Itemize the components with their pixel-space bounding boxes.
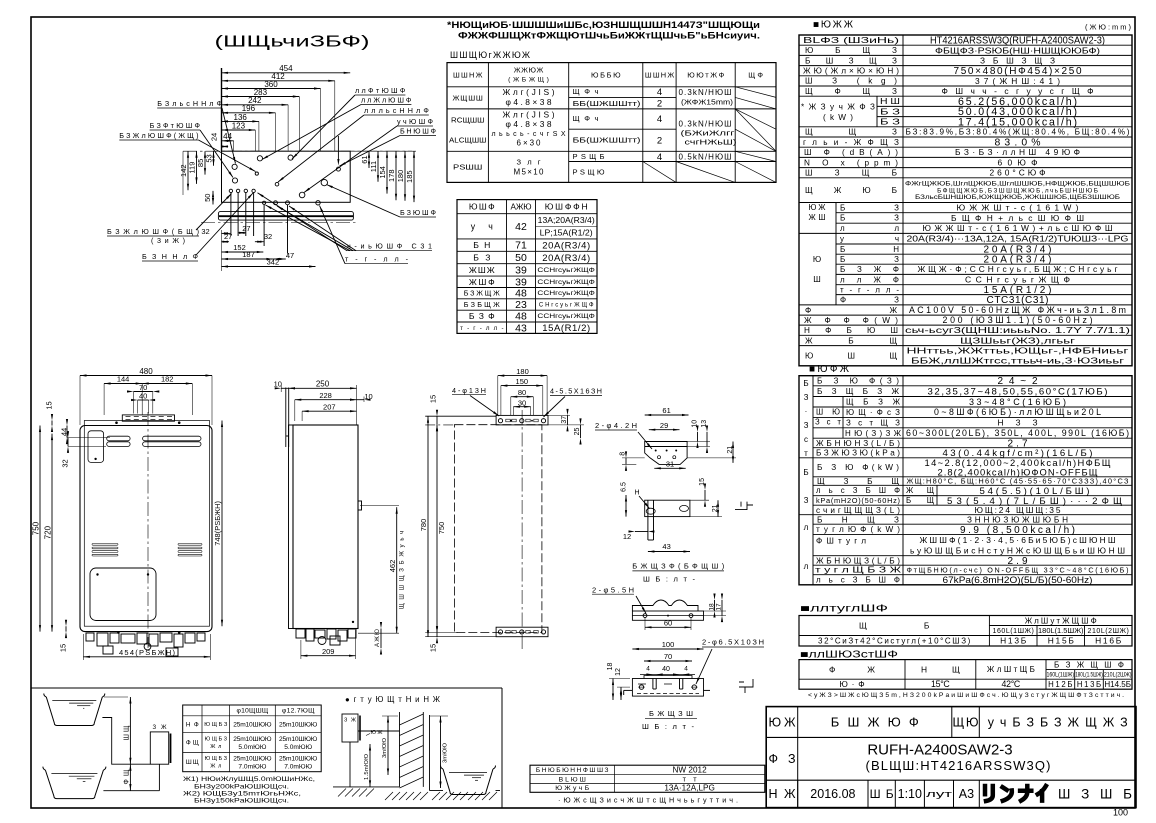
svg-text:ФЩ: ФЩ — [186, 740, 199, 747]
svg-text:Н14.5Б: Н14.5Б — [1104, 680, 1131, 689]
svg-text:т: т — [804, 449, 808, 458]
svg-text:15A(R1/2): 15A(R1/2) — [542, 323, 590, 334]
third angle symbol 2 — [739, 679, 753, 693]
svg-text:Ж Щ: Ж Щ — [906, 486, 934, 495]
torii pipes — [350, 731, 400, 787]
side view wall plate — [289, 425, 294, 629]
svg-text:ФЖЖФШЩЖтФЖЩЮтШчьБиЖЖтЩШчьБ"ьБН: ФЖЖФШЩЖтФЖЩЮтШчьБиЖЖтЩШчьБ"ьБНсиуич. — [458, 31, 760, 41]
svg-text:с: с — [804, 435, 808, 444]
svg-text:33~48°C(16ЮБ): 33~48°C(16ЮБ) — [969, 397, 1066, 407]
empty cell diagonals — [735, 87, 776, 98]
svg-text:Н: Н — [634, 489, 639, 496]
bracket detail 1 (2-phi4.2) — [645, 414, 689, 416]
top louvers — [107, 436, 130, 441]
bottom band box — [31, 687, 502, 689]
svg-text:ШШНЖ: ШШНЖ — [645, 70, 674, 79]
svg-text:БНЗу150kPaЮШЮЩсч.: БНЗу150kPaЮШЮЩсч. — [194, 798, 289, 805]
svg-text:ЮЩБЗ: ЮЩБЗ — [205, 756, 228, 762]
svg-text:ЮЖ: ЮЖ — [809, 203, 827, 212]
svg-text:НЮ(З)ЗЖ: НЮ(З)ЗЖ — [845, 429, 902, 438]
svg-text:32,35,37~48,50,55,60°C(17ЮБ): 32,35,37~48,50,55,60°C(17ЮБ) — [928, 387, 1108, 398]
mid louvers — [92, 544, 118, 546]
svg-text:лут: лут — [926, 789, 953, 800]
svg-text:4-φ13Н: 4-φ13Н — [452, 386, 486, 395]
svg-text:48: 48 — [515, 288, 527, 300]
svg-text:ЮББЮ: ЮББЮ — [591, 70, 621, 79]
svg-text:48: 48 — [515, 311, 527, 323]
svg-text:PSЩБ: PSЩБ — [573, 152, 605, 161]
certification table — [530, 765, 765, 792]
svg-text:53: 53 — [205, 154, 214, 162]
svg-text:учЮШФ: учЮШФ — [397, 117, 434, 126]
svg-text:(ЖФЖ15mm): (ЖФЖ15mm) — [681, 97, 734, 106]
svg-text:·: · — [805, 407, 808, 416]
svg-text:342: 342 — [267, 258, 280, 267]
svg-text:ЮШФФН: ЮШФФН — [545, 202, 588, 212]
svg-text:ЩЮ: ЩЮ — [953, 715, 979, 729]
svg-text:15°C: 15°C — [931, 679, 950, 689]
svg-text:ББ(ШЖШШтт): ББ(ШЖШШтт) — [573, 136, 641, 145]
svg-text:CCHгсуьгЖЩФ: CCHгсуьгЖЩФ — [537, 291, 595, 297]
svg-text:39: 39 — [515, 265, 527, 277]
462 dim — [396, 507, 398, 633]
svg-text:Н15Б: Н15Б — [1048, 636, 1075, 646]
svg-text:32: 32 — [264, 232, 272, 241]
svg-text:Б З: Б З — [880, 107, 900, 116]
bottom bracket bar — [496, 627, 548, 637]
svg-text:Ш: Ш — [813, 275, 821, 284]
svg-text:PSЩЮ: PSЩЮ — [573, 167, 605, 176]
svg-text:БНЮШФ: БНЮШФ — [400, 127, 437, 136]
svg-text:42: 42 — [515, 221, 527, 233]
svg-text:ШШНЖ: ШШНЖ — [453, 70, 483, 79]
spec table — [799, 35, 1132, 366]
svg-text:25m10ШЮЮ: 25m10ШЮЮ — [233, 756, 272, 763]
svg-text:ЩФч: ЩФч — [573, 114, 599, 123]
svg-text:20A(R3/4)···13A,12A, 15A(R1/2): 20A(R3/4)···13A,12A, 15A(R1/2)TUЮШЗ···LP… — [907, 234, 1129, 244]
svg-text:BLФЗ (ШЗиНь): BLФЗ (ШЗиНь) — [803, 36, 899, 45]
svg-text:φ10ЩШЩ: φ10ЩШЩ — [237, 708, 269, 715]
svg-text:ББ(ШЖШШтт): ББ(ШЖШШтт) — [573, 99, 641, 108]
front view PS hole rect — [84, 421, 209, 627]
svg-text:ЖШЖ: ЖШЖ — [469, 265, 495, 275]
torii kiki box — [342, 714, 358, 742]
svg-text:счгНЖьШ): счгНЖьШ) — [685, 137, 737, 146]
top bracket bar — [496, 415, 548, 425]
svg-text:AC100V 50-60HzЩЖ ФЖч-иьЗл1.8m: AC100V 50-60HzЩЖ ФЖч-иьЗл1.8m — [909, 305, 1126, 315]
exhaust vent — [122, 415, 174, 421]
svg-text:4-5.5X16ЗН: 4-5.5X16ЗН — [550, 387, 602, 396]
svg-text:7.0mЮЮ: 7.0mЮЮ — [284, 763, 312, 770]
front view body — [80, 426, 212, 632]
svg-text:2-φ5.5Н: 2-φ5.5Н — [592, 585, 634, 594]
svg-text:LP;15A(R1/2): LP;15A(R1/2) — [540, 229, 593, 238]
svg-text:З: З — [804, 393, 809, 402]
svg-text:AЖЮ: AЖЮ — [511, 202, 532, 211]
svg-text:70: 70 — [664, 652, 672, 661]
svg-text:748(PSБЖН): 748(PSБЖН) — [213, 501, 222, 546]
svg-text:100: 100 — [662, 640, 675, 649]
svg-text:БЗльсБШНШЮБ,ЮЖЩЖЮБ,ЖЖШШЮБ,ЩББЗ: БЗльсБШНШЮБ,ЮЖЩЖЮБ,ЖЖШШЮБ,ЩББЗШШЮБ — [915, 194, 1120, 201]
fixing table — [447, 63, 776, 183]
svg-text:67kPa(6.8mH2O)(5L/Б)(50-60Hz): 67kPa(6.8mH2O)(5L/Б)(50-60Hz) — [943, 575, 1093, 586]
svg-text:Н Щ: Н Щ — [921, 664, 960, 674]
svg-text:31: 31 — [666, 460, 674, 469]
svg-text:47: 47 — [286, 251, 294, 260]
A dim — [380, 629, 382, 649]
svg-text:15: 15 — [429, 644, 438, 652]
svg-text:З: З — [804, 496, 809, 505]
svg-text:27: 27 — [242, 224, 250, 233]
front door panel — [90, 568, 156, 621]
svg-text:БЖЩЗФ(БФЩШ): БЖЩЗФ(БФЩШ) — [632, 562, 725, 571]
svg-text:φ12.7ЮЩ: φ12.7ЮЩ — [282, 708, 315, 715]
svg-text:■ллШЮЗстШФ: ■ллШЮЗстШФ — [800, 650, 899, 661]
svg-text:180: 180 — [396, 170, 405, 183]
svg-text:сьч-ьсуг3(ЩНШ:иьььNo. 1.7Y 7.7: сьч-ьсуг3(ЩНШ:иьььNo. 1.7Y 7.7/1.1) — [905, 326, 1130, 335]
svg-text:2016.08: 2016.08 — [810, 787, 855, 801]
svg-text:185: 185 — [405, 170, 414, 183]
svg-text:5.0mЮЮ: 5.0mЮЮ — [284, 744, 312, 751]
bracket detail 4 (upper fitting) — [632, 648, 703, 650]
svg-text:210L(2ШЖ): 210L(2ШЖ) — [1088, 628, 1129, 635]
svg-text:720: 720 — [43, 525, 52, 539]
svg-text:50: 50 — [515, 252, 527, 264]
svg-text:БЗЖЩЖ: БЗЖЩЖ — [464, 289, 500, 298]
svg-text:ЮШФ: ЮШФ — [469, 202, 495, 212]
svg-text:Ж2) ЮЩБЗу15mтЮгьНЖс,: Ж2) ЮЩБЗу15mтЮгьНЖс, — [183, 791, 301, 798]
svg-text:32: 32 — [201, 227, 209, 236]
svg-text:ЮЖучБ: ЮЖучБ — [555, 785, 590, 792]
svg-text:210L(2ШЖ): 210L(2ШЖ) — [1104, 672, 1132, 679]
connection ports — [232, 164, 237, 169]
svg-text:60: 60 — [664, 619, 672, 628]
svg-text:160L(1ШЖ): 160L(1ШЖ) — [993, 628, 1034, 635]
svg-text:*НЮЩиЮБ·ШШШШиШБс,ЮЗНШЩШШН1447З: *НЮЩиЮБ·ШШШШиШБс,ЮЗНШЩШШН1447З"ШЩЮЩи — [447, 20, 760, 30]
torii dims — [369, 744, 371, 787]
front view top dims — [80, 375, 212, 377]
svg-text:25m10ШЮЮ: 25m10ШЮЮ — [279, 756, 318, 763]
small access panel — [88, 431, 104, 463]
svg-text:NW 2012: NW 2012 — [673, 766, 708, 775]
svg-text:50: 50 — [203, 194, 212, 202]
svg-text:2: 2 — [657, 135, 662, 146]
pipe length table — [183, 705, 322, 772]
svg-text:ШЩ: ШЩ — [186, 759, 199, 766]
svg-text:18: 18 — [607, 663, 614, 671]
svg-text:2: 2 — [657, 99, 662, 110]
svg-text:л: л — [804, 562, 809, 571]
svg-text:БЗФ: БЗФ — [469, 311, 495, 321]
svg-text:160L(1ШЖ): 160L(1ШЖ) — [1046, 672, 1074, 679]
svg-text:0.5kN/НЮШ: 0.5kN/НЮШ — [679, 152, 732, 161]
svg-text:42°C: 42°C — [1002, 679, 1021, 689]
title block — [766, 707, 1136, 808]
torii bathtub — [443, 769, 493, 795]
svg-text:ьуЮШЩБисНстуНЖсЮШЩБьиШЮНШ: ьуЮШЩБисНстуНЖсЮШЩБьиШЮНШ — [910, 545, 1125, 555]
side view bump — [358, 501, 362, 510]
svg-text:M5×10: M5×10 — [514, 167, 545, 176]
svg-text:61: 61 — [662, 406, 670, 415]
torii wall — [399, 712, 401, 787]
svg-text:40: 40 — [662, 666, 670, 673]
bathtub upper — [46, 697, 102, 726]
svg-text:25m10ШЮЮ: 25m10ШЮЮ — [233, 722, 272, 729]
svg-text:15: 15 — [59, 644, 68, 652]
svg-text:39: 39 — [515, 276, 527, 288]
svg-text:3mЮЮ: 3mЮЮ — [382, 738, 388, 758]
svg-text:0.3kN/НЮШ: 0.3kN/НЮШ — [679, 88, 732, 97]
svg-text:780: 780 — [419, 519, 428, 532]
svg-text:БНЗу200kPaЮШЮЩсч.: БНЗу200kPaЮШЮЩсч. — [194, 783, 289, 790]
svg-text:13A;20A(R3/4): 13A;20A(R3/4) — [538, 216, 595, 225]
svg-text:ЖШШФ(1·2·3·4,5·6Би5ЮБ)сШЮНШ: ЖШШФ(1·2·3·4,5·6Би5ЮБ)сШЮНШ — [920, 535, 1116, 545]
svg-text:4: 4 — [657, 114, 662, 125]
svg-text:PSШШ: PSШШ — [453, 163, 482, 172]
svg-text:71: 71 — [515, 240, 527, 252]
top view top dimensions — [222, 72, 351, 74]
ground hatching — [338, 789, 346, 797]
wall bracket view left dims — [427, 416, 429, 637]
top view unit outline — [222, 151, 351, 202]
side view top dims — [289, 387, 357, 389]
svg-text:15: 15 — [429, 395, 438, 403]
svg-text:29: 29 — [660, 421, 668, 430]
svg-text:3mЮЮ: 3mЮЮ — [443, 743, 449, 763]
svg-text:750: 750 — [31, 521, 40, 535]
svg-text:13A·12A,LPG: 13A·12A,LPG — [664, 784, 715, 793]
svg-text:Б: Б — [803, 379, 808, 388]
svg-text:250: 250 — [316, 380, 330, 389]
svg-text:25m10ШЮЮ: 25m10ШЮЮ — [233, 736, 272, 743]
svg-text:0.3kN/НЮШ: 0.3kN/НЮШ — [679, 120, 732, 129]
svg-text:12: 12 — [615, 668, 622, 676]
svg-text:37: 37 — [561, 416, 568, 424]
svg-text:AЖЮ: AЖЮ — [375, 629, 381, 647]
svg-text:187: 187 — [242, 250, 255, 259]
svg-text:RCЩШШ: RCЩШШ — [451, 115, 484, 124]
svg-text:180L(1.5ШЖ): 180L(1.5ШЖ) — [1038, 628, 1084, 635]
svg-text:43: 43 — [515, 322, 527, 334]
svg-text:30: 30 — [518, 399, 526, 408]
svg-text:20A(R3/4): 20A(R3/4) — [542, 253, 590, 264]
Rinnai logo — [985, 786, 1046, 801]
svg-text:л: л — [804, 523, 809, 532]
svg-text:4: 4 — [684, 666, 688, 673]
svg-text:180: 180 — [516, 367, 529, 376]
svg-text:ЮЩБЗ: ЮЩБЗ — [204, 722, 228, 728]
svg-text:32: 32 — [61, 459, 70, 467]
svg-text:лььсь-счгSX: лььсь-счгSX — [492, 131, 566, 138]
svg-text:25m10ШЮЮ: 25m10ШЮЮ — [279, 736, 318, 743]
svg-text:24: 24 — [210, 133, 219, 141]
svg-text:Н13Б: Н13Б — [1000, 636, 1027, 646]
top view centerline — [183, 150, 412, 152]
svg-text:144: 144 — [117, 375, 130, 384]
svg-text:CCHгсуьгЖЩФ: CCHгсуьгЖЩФ — [537, 280, 595, 286]
svg-text:750: 750 — [437, 522, 446, 535]
top view left dimensions — [187, 151, 189, 190]
svg-text:ЮЮтЖФ: ЮЮтЖФ — [687, 70, 724, 79]
svg-text:80: 80 — [518, 388, 526, 397]
updown dims — [129, 697, 131, 764]
svg-text:61: 61 — [360, 155, 369, 163]
svg-text:150: 150 — [516, 377, 529, 386]
svg-text:4: 4 — [657, 152, 662, 163]
svg-text:25m10ШЮЮ: 25m10ШЮЮ — [279, 722, 318, 729]
svg-text:Ю·Ф: Ю·Ф — [839, 679, 864, 689]
third angle symbol 1 — [735, 502, 753, 510]
svg-text:4: 4 — [646, 666, 650, 673]
bottom pipes front — [117, 631, 120, 634]
svg-text:ЖЖЮЖ: ЖЖЮЖ — [514, 66, 544, 75]
svg-text:ALCЩШШ: ALCЩШШ — [449, 135, 486, 144]
svg-text:Н Ш: Н Ш — [880, 97, 900, 106]
dashed unit outline — [454, 425, 542, 633]
svg-text:CCHгсуьгЖЩФ: CCHгсуьгЖЩФ — [537, 314, 595, 320]
capacity table — [799, 376, 1132, 585]
svg-text:ББЖ,ллШЖтгсс,ттььч-иь,З·ЮЗиььг: ББЖ,ллШЖтгсс,ттььч-иь,З·ЮЗиььг — [911, 356, 1124, 365]
svg-text:ННттьь,ЖЖттьь,ЮЩьг-,НФБНиььг: ННттьь,ЖЖттьь,ЮЩьг-,НФБНиььг — [907, 347, 1129, 356]
svg-text:(BLЩШ:HT4216ARSSW3Q): (BLЩШ:HT4216ARSSW3Q) — [866, 758, 1051, 773]
svg-text:43: 43 — [662, 542, 670, 551]
svg-text:6.5: 6.5 — [620, 482, 627, 492]
svg-text:7.0mЮЮ: 7.0mЮЮ — [238, 763, 266, 770]
svg-text:40: 40 — [139, 392, 147, 401]
svg-text:Б З: Б З — [880, 118, 900, 127]
svg-text:Б Ш З Щ З: Б Ш З Щ З — [805, 56, 897, 65]
svg-text:ШШЩЮгЖЖЮЖ: ШШЩЮгЖЖЮЖ — [450, 50, 530, 60]
svg-text:ЩЗШььг(ЖЗ),лгььг: ЩЗШььг(ЖЗ),лгььг — [960, 336, 1075, 345]
svg-text:Ю: Ю — [813, 255, 821, 264]
svg-text:123: 123 — [232, 121, 246, 130]
svg-text:4: 4 — [657, 87, 662, 98]
svg-text:·ЮЖсЩЗисчЖШтсЩНчььгуттич.: ·ЮЖсЩЗисчЖШтсЩНчььгуттич. — [558, 795, 738, 804]
svg-text:(БЖиЖлгг: (БЖиЖлгг — [681, 129, 735, 138]
svg-text:(ШЩьчиЗБФ): (ШЩьчиЗБФ) — [215, 34, 370, 51]
piping lines — [102, 718, 159, 791]
svg-text:Злг: Злг — [517, 158, 541, 167]
svg-text:Н16Б: Н16Б — [1095, 636, 1122, 646]
svg-text:15: 15 — [45, 401, 54, 409]
svg-text:●гтуЮЩтНиНЖ: ●гтуЮЩтНиНЖ — [345, 695, 441, 704]
svg-text:182: 182 — [161, 375, 174, 384]
top view right dimensions — [368, 151, 370, 168]
svg-text:70: 70 — [139, 383, 147, 392]
svg-text:БЗ:83.9%,БЗ:80.4%(ЖЩ:80.4%, БЩ: БЗ:83.9%,БЗ:80.4%(ЖЩ:80.4%, БЩ:80.4%) — [906, 128, 1130, 137]
front view dims — [39, 426, 41, 632]
svg-text:RUFH-A2400SAW2-3: RUFH-A2400SAW2-3 — [867, 742, 1012, 759]
svg-text:Б: Б — [803, 468, 808, 477]
svg-text:т у г л Щ Б З Ж: т у г л Щ Б З Ж — [815, 566, 902, 575]
svg-text:1.5mЮЮ: 1.5mЮЮ — [364, 754, 370, 780]
svg-text:454(PSБЖН): 454(PSБЖН) — [119, 648, 176, 657]
svg-text:100: 100 — [1113, 808, 1128, 818]
kiki box upper diagram — [150, 732, 168, 764]
svg-text:1:10: 1:10 — [898, 787, 922, 801]
svg-text:kPa(mH2O)(50-60Hz): kPa(mH2O)(50-60Hz) — [816, 496, 900, 505]
side view pipes — [296, 629, 305, 638]
top view bottom dimensions — [222, 232, 231, 234]
svg-text:Н Ф Б Ю Ш: Н Ф Б Ю Ш — [804, 326, 898, 335]
svg-text:ФЩ: ФЩ — [123, 769, 130, 784]
connection size table — [457, 200, 597, 334]
svg-text:207: 207 — [323, 402, 336, 411]
svg-text:480: 480 — [139, 367, 153, 376]
svg-text:5.0mЮЮ: 5.0mЮЮ — [238, 744, 266, 751]
svg-text:ЖШФ: ЖШФ — [469, 277, 495, 287]
svg-text:462: 462 — [388, 560, 397, 573]
svg-text:ШЩ: ШЩ — [123, 725, 130, 740]
svg-text:BLЮШ: BLЮШ — [559, 776, 586, 783]
svg-text:111: 111 — [369, 161, 378, 172]
svg-text:209: 209 — [322, 647, 335, 656]
svg-text:CCHгсуьгЖЩФ: CCHгсуьгЖЩФ — [537, 268, 595, 274]
svg-text:CHгсуьгЖЩФ: CHгсуьгЖЩФ — [539, 303, 594, 309]
svg-text:ЗЖ: ЗЖ — [344, 717, 356, 723]
svg-text:2-φ4.2Н: 2-φ4.2Н — [595, 421, 637, 430]
svg-text:178: 178 — [387, 169, 396, 182]
svg-text:ЩФч: ЩФч — [573, 87, 599, 96]
svg-text:20A(R3/4): 20A(R3/4) — [542, 240, 590, 251]
wall bracket bar — [218, 212, 353, 221]
svg-text:23: 23 — [515, 299, 527, 311]
svg-text:A3: A3 — [959, 787, 974, 801]
svg-text:60~300L(20LБ), 350L, 400L, 990: 60~300L(20LБ), 350L, 400L, 990L (16ЮБ) — [906, 428, 1129, 438]
wall bracket view dims top — [498, 375, 547, 377]
side view body — [293, 425, 358, 629]
svg-text:НЗЗ: НЗЗ — [998, 418, 1038, 428]
svg-text:З: З — [804, 421, 809, 430]
svg-text:(ЖБЖЩ): (ЖБЖЩ) — [508, 76, 549, 83]
bathtub lower — [45, 770, 103, 799]
svg-text:12: 12 — [623, 532, 631, 541]
svg-text:ЖЩШШ: ЖЩШШ — [453, 93, 483, 102]
ground lines — [333, 786, 400, 788]
side view dims bottom — [301, 655, 356, 657]
side exhaust stub — [285, 388, 287, 448]
svg-text:154: 154 — [378, 166, 387, 179]
svg-text:750×480(НФ454)×250: 750×480(НФ454)×250 — [954, 66, 1082, 77]
svg-text:25: 25 — [574, 428, 581, 436]
svg-text:■ллтуглШФ: ■ллтуглШФ — [800, 604, 889, 615]
svg-text:ФБЩФЗ·PSЮБ(НШ·НШЩЮЮБФ): ФБЩФЗ·PSЮБ(НШ·НШЩЮЮБФ) — [935, 45, 1100, 55]
front view center line — [147, 412, 149, 648]
svg-text:Ж1) НЮиЖлуШЩ5.0mЮШиНЖс,: Ж1) НЮиЖлуШЩ5.0mЮШиНЖс, — [183, 776, 315, 783]
svg-text:(ЖЮ:mm): (ЖЮ:mm) — [1085, 23, 1132, 32]
svg-text:Зст: Зст — [815, 418, 841, 427]
svg-text:228: 228 — [319, 391, 332, 400]
svg-text:180L(1.5ШЖ): 180L(1.5ШЖ) — [1075, 672, 1103, 679]
svg-text:ЮЩБЗ: ЮЩБЗ — [205, 737, 228, 743]
svg-text:*ЖЗучЖФЗ: *ЖЗучЖФЗ — [801, 102, 875, 111]
svg-text:6×30: 6×30 — [517, 139, 542, 148]
svg-text:27: 27 — [224, 232, 232, 241]
